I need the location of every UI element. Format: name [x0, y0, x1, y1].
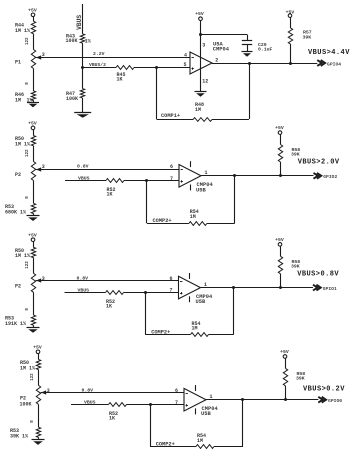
svg-text:100K: 100K — [66, 38, 78, 44]
svg-text:12: 12 — [202, 79, 208, 85]
ground (P2 divider) — [32, 437, 45, 445]
svg-text:122: 122 — [26, 149, 30, 157]
svg-text:39K 1%: 39K 1% — [10, 433, 28, 439]
resistor R53 680K 1% — [5, 203, 36, 215]
wire — [157, 119, 194, 121]
resistor R47 100K — [66, 89, 85, 102]
node (R58/output) — [279, 174, 282, 177]
wire — [33, 242, 35, 248]
svg-text:P2: P2 — [15, 172, 21, 178]
svg-text:1M: 1M — [192, 326, 198, 332]
svg-text:122: 122 — [31, 373, 35, 381]
ground (U5A pin 12) — [195, 74, 207, 97]
port GPIO2 — [314, 173, 338, 180]
wire (hysteresis left leg) — [149, 403, 152, 447]
svg-text:3: 3 — [42, 276, 45, 282]
resistor R52 1K — [106, 179, 124, 198]
svg-text:122: 122 — [26, 261, 30, 269]
resistor R43 100K 1% — [66, 34, 91, 45]
wire — [150, 446, 196, 448]
svg-text:39K: 39K — [291, 152, 300, 158]
svg-text:1M: 1M — [15, 97, 21, 103]
node (R58/output) — [284, 398, 287, 401]
power +5V (R57 pull-up) — [286, 9, 295, 17]
resistor R54 1M — [191, 321, 209, 336]
wire 0.8V (wiper to pin 6) — [36, 164, 179, 170]
svg-text:1M: 1M — [195, 107, 201, 113]
power +5V (P2 divider) — [28, 121, 37, 130]
svg-text:VBUS: VBUS — [78, 176, 90, 182]
node VBUS/2 — [81, 62, 106, 69]
wire — [38, 354, 40, 360]
svg-text:U5B: U5B — [196, 299, 206, 305]
svg-text:3: 3 — [47, 388, 50, 394]
resistor R54 1M — [189, 209, 207, 225]
wire (hysteresis left leg) — [145, 179, 148, 223]
svg-text:6: 6 — [175, 388, 178, 394]
power +5V (R58 pull-up) — [275, 125, 284, 134]
wire — [124, 180, 179, 182]
svg-text:P1: P1 — [15, 59, 21, 65]
resistor R53 191K 1% — [5, 315, 36, 327]
power +5V (R58 pull-up) — [275, 237, 284, 246]
power +5V (U5A supply) — [195, 11, 204, 21]
svg-text:6: 6 — [169, 276, 172, 282]
resistor R50 1M 1% — [15, 247, 36, 259]
svg-text:GPIO2: GPIO2 — [323, 174, 337, 180]
node (R58/output) — [279, 286, 282, 289]
svg-text:0.8V: 0.8V — [82, 387, 94, 393]
svg-text:2: 2 — [215, 57, 218, 63]
wire — [214, 446, 243, 448]
wire — [134, 67, 190, 69]
wire — [209, 334, 234, 336]
svg-text:39K: 39K — [291, 263, 300, 269]
svg-text:7: 7 — [175, 400, 178, 406]
wire — [33, 292, 35, 315]
svg-text:VBUS: VBUS — [76, 15, 83, 30]
wire — [33, 17, 35, 22]
ground (P2 divider) — [27, 325, 40, 333]
net VBUS (to pin 7) — [65, 176, 106, 182]
resistor R44 1M 1% — [15, 21, 36, 34]
net VBUS (vertical) — [76, 4, 83, 34]
svg-text:5: 5 — [183, 62, 186, 68]
svg-text:7: 7 — [169, 288, 172, 294]
resistor R50 1M 1% — [15, 136, 36, 148]
svg-text:39K: 39K — [303, 34, 312, 40]
node (R57/output) — [289, 62, 292, 65]
wire — [33, 34, 35, 50]
resistor R45 1K — [116, 66, 134, 83]
wire (hysteresis left leg) — [155, 66, 158, 119]
svg-text:1: 1 — [204, 282, 207, 288]
svg-text:39K: 39K — [296, 376, 305, 382]
node (feedback tap) — [248, 62, 251, 65]
capacitor C29 0.1uF — [242, 35, 273, 53]
wire (U5B output) — [201, 175, 314, 177]
net VBUS (to pin 7) — [71, 400, 109, 406]
svg-text:VBUS>2.0V: VBUS>2.0V — [298, 159, 340, 167]
wire — [33, 130, 35, 136]
svg-text:+5V: +5V — [28, 7, 37, 13]
wire 0.8V (wiper to pin 6) — [41, 387, 184, 393]
resistor R52 1K — [106, 291, 124, 310]
svg-text:0.8V: 0.8V — [77, 275, 89, 281]
svg-text:2.2V: 2.2V — [93, 51, 105, 57]
wire — [82, 43, 84, 88]
svg-text:GPIO4: GPIO4 — [327, 61, 341, 67]
node (feedback tap) — [232, 286, 235, 289]
wire — [33, 181, 35, 204]
svg-text:COMP2+: COMP2+ — [153, 218, 172, 224]
svg-text:4: 4 — [184, 52, 187, 58]
svg-text:0.8V: 0.8V — [77, 164, 89, 170]
wire — [38, 404, 40, 427]
power +5V (P2 divider) — [28, 232, 37, 241]
potentiometer P2 — [15, 162, 41, 181]
svg-text:GPIO0: GPIO0 — [328, 398, 342, 404]
node (feedback tap) — [241, 398, 244, 401]
svg-text:CMP04: CMP04 — [213, 47, 230, 53]
resistor R58 39K — [278, 246, 300, 287]
svg-text:0.1uF: 0.1uF — [258, 46, 273, 52]
resistor R46 1M 1% — [15, 91, 36, 103]
wire — [212, 119, 249, 121]
op-amp U5B CMP04 — [179, 273, 213, 305]
wire — [146, 334, 191, 336]
svg-text:VBUS>0.8V: VBUS>0.8V — [297, 270, 339, 278]
svg-text:3: 3 — [202, 42, 205, 48]
potentiometer P1 — [15, 50, 41, 69]
op-amp U5A CMP04 — [190, 35, 230, 85]
svg-text:7: 7 — [170, 176, 173, 182]
ground (C29) — [242, 51, 253, 53]
svg-text:COMP1+: COMP1+ — [161, 113, 180, 119]
op-amp U5B CMP04 — [179, 161, 213, 193]
resistor R54 1M — [196, 433, 214, 448]
wire — [38, 370, 40, 386]
wire 0.8V (wiper to pin 6) — [36, 275, 179, 281]
ground (P1 divider) — [27, 101, 39, 108]
svg-text:100K: 100K — [66, 96, 78, 102]
port GPIO0 — [318, 397, 342, 404]
svg-text:U5B: U5B — [196, 187, 206, 193]
svg-text:680K 1%: 680K 1% — [5, 209, 26, 215]
resistor R50 1M 1% — [20, 360, 41, 372]
svg-text:VBUS: VBUS — [84, 400, 96, 406]
svg-text:6: 6 — [170, 164, 173, 170]
potentiometer P2 100K — [20, 385, 47, 407]
wire — [207, 223, 235, 225]
svg-text:191K 1%: 191K 1% — [5, 321, 26, 327]
port GPIO1 — [313, 285, 337, 292]
node (feedback tap) — [233, 174, 236, 177]
port GPIO4 — [317, 60, 341, 67]
svg-text:1K: 1K — [106, 304, 112, 310]
wire — [147, 223, 189, 225]
wire — [200, 21, 202, 35]
resistor R48 1M — [193, 102, 212, 122]
wire — [33, 146, 35, 162]
potentiometer P2 — [15, 273, 41, 292]
net VBUS (to pin 7) — [65, 287, 106, 293]
svg-text:1M 1%: 1M 1% — [15, 253, 30, 259]
wire — [33, 69, 35, 92]
power +5V (P2 100K divider) — [33, 344, 42, 353]
wire (U5B output) — [206, 399, 318, 401]
svg-text:VBUS: VBUS — [78, 287, 90, 293]
svg-text:1M: 1M — [190, 214, 196, 220]
svg-text:U5B: U5B — [201, 411, 211, 417]
svg-text:1M 1%: 1M 1% — [20, 365, 35, 371]
resistor R52 1K — [109, 403, 127, 422]
svg-text:GPIO1: GPIO1 — [323, 286, 337, 292]
wire — [83, 67, 116, 69]
svg-text:VBUS>0.2V: VBUS>0.2V — [303, 385, 345, 393]
wire (U5A output) — [212, 63, 317, 65]
svg-text:1M 1%: 1M 1% — [15, 141, 30, 147]
wire — [33, 258, 35, 274]
resistor R58 39K — [283, 358, 305, 399]
svg-text:1M: 1M — [197, 438, 203, 444]
ground (P2 divider) — [27, 214, 40, 222]
resistor R57 39K — [288, 17, 311, 63]
svg-text:P2: P2 — [15, 284, 21, 290]
svg-text:1K: 1K — [117, 77, 123, 83]
ground (VBUS divider) — [74, 98, 91, 118]
svg-text:100K: 100K — [20, 401, 32, 407]
wire — [124, 292, 179, 294]
svg-text:+5V: +5V — [195, 11, 204, 17]
op-amp U5B CMP04 — [184, 385, 218, 417]
wire (U5B output) — [201, 287, 314, 289]
svg-text:1K: 1K — [107, 192, 113, 198]
svg-text:VBUS>4.4V: VBUS>4.4V — [308, 49, 350, 57]
power +5V (R58 pull-up) — [280, 349, 289, 358]
svg-text:122: 122 — [26, 37, 30, 45]
resistor R58 39K — [278, 134, 300, 175]
wire — [127, 404, 185, 406]
svg-text:1K: 1K — [109, 416, 115, 422]
svg-text:1M 1%: 1M 1% — [15, 28, 30, 34]
power +5V (P1 divider) — [28, 7, 37, 16]
svg-text:1%: 1% — [85, 38, 91, 44]
wire (hysteresis left leg) — [144, 291, 147, 335]
resistor R53 39K 1% — [10, 427, 41, 439]
wire 2.2V (P1 wiper to U5A pin 4) — [36, 51, 190, 57]
